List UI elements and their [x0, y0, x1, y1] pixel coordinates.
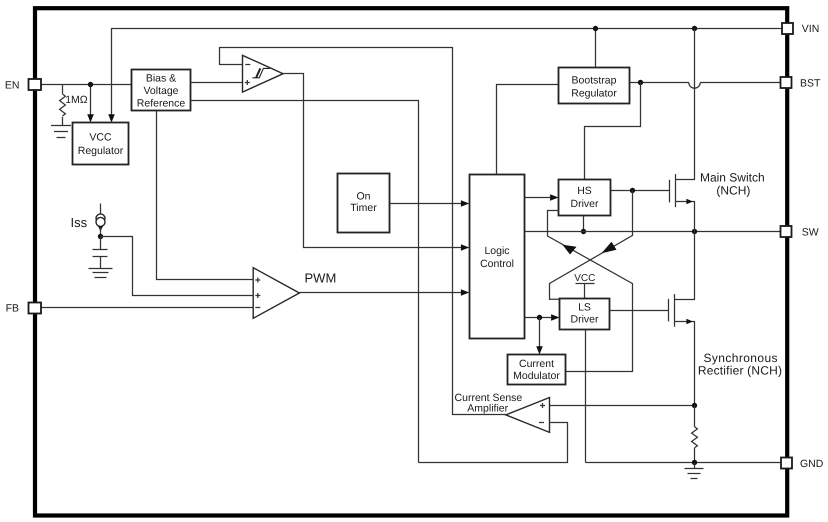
svg-text:Main Switch: Main Switch: [700, 171, 765, 185]
svg-text:Logic: Logic: [484, 245, 509, 257]
svg-text:VCC: VCC: [89, 132, 112, 144]
wire Logic Control to HS Driver: [525, 197, 551, 199]
svg-text:Amplifier: Amplifier: [467, 402, 508, 414]
arrow into HS Driver: [550, 194, 558, 200]
wire LS Driver bottom to GND rail: [585, 330, 587, 463]
wire Bootstrap top to VIN rail: [595, 29, 597, 68]
transistor Q2 Synchronous Rectifier (NCH): [669, 232, 695, 406]
block VCC Regulator: [73, 123, 129, 165]
capacitor C1 (soft start): [93, 237, 108, 269]
wire EN net: [41, 85, 132, 115]
wire Logic Control to LS Driver: [525, 317, 552, 319]
wire VIN rail (top): [112, 29, 783, 115]
svg-text:Voltage: Voltage: [143, 85, 178, 97]
svg-text:Driver: Driver: [571, 313, 600, 325]
svg-text:Bias &: Bias &: [146, 72, 176, 84]
comparator U1 (schmitt enable comparator): [243, 55, 284, 92]
junction VIN/main-switch drain: [692, 26, 697, 31]
pin VIN: [782, 23, 819, 35]
svg-text:Bootstrap: Bootstrap: [572, 74, 617, 86]
resistor R1 1Mohm: [60, 85, 66, 126]
pin SW: [781, 226, 819, 238]
svg-text:Modulator: Modulator: [513, 370, 560, 382]
svg-text:Rectifier (NCH): Rectifier (NCH): [698, 363, 782, 377]
svg-text:On: On: [356, 191, 370, 203]
wire LS Driver output to rectifier gate: [610, 310, 669, 312]
block Current Modulator: [508, 355, 566, 385]
svg-text:BST: BST: [800, 77, 821, 89]
svg-text:Control: Control: [480, 258, 514, 270]
svg-text:SW: SW: [802, 226, 819, 238]
arrow into VCC regulator (from VIN rail): [108, 114, 115, 122]
resistor R2 (current sense): [692, 406, 698, 463]
wire Bias lower output (reference) right then down: [191, 101, 419, 463]
junction BST/HS-driver supply: [638, 80, 643, 85]
pin BST: [781, 77, 822, 89]
wire Iss node to PWM + input 2: [101, 237, 254, 296]
wire - input to reference rail: [419, 423, 568, 463]
wire schmitt - input feedback from current sense amp output: [220, 48, 506, 415]
wire Bias upper output to schmitt + input: [191, 82, 243, 84]
wire BST net (with hop over drain line): [630, 83, 783, 89]
op-amp U3 current sense amplifier: [506, 398, 550, 433]
arrow into Logic Control (On Timer): [461, 200, 469, 206]
pin FB: [6, 303, 41, 315]
wire SW rail: [525, 231, 783, 233]
svg-text:Driver: Driver: [571, 198, 600, 210]
junction LS input node: [537, 315, 542, 320]
junction Iss node: [98, 234, 103, 239]
ground (main, at GND rail): [685, 463, 704, 479]
arrow on cross wire (right): [602, 242, 617, 253]
block Bias & Voltage Reference: [132, 70, 191, 111]
svg-text:Regulator: Regulator: [571, 87, 617, 99]
wire Logic Control top to Bootstrap Regulator left: [497, 85, 559, 175]
junction VIN/bootstrap: [593, 26, 598, 31]
svg-text:1MΩ: 1MΩ: [65, 94, 88, 106]
wire On Timer output to Logic Control: [390, 203, 462, 205]
svg-text:EN: EN: [5, 79, 20, 91]
wire BST node down to HS Driver top: [585, 83, 641, 180]
svg-text:VCC: VCC: [574, 273, 595, 284]
svg-text:VIN: VIN: [802, 23, 820, 35]
wire cross-coupling from HS driver left (diagonal to current modulator): [548, 211, 633, 372]
arrow into VCC regulator (from EN node): [87, 114, 94, 122]
svg-text:GND: GND: [800, 458, 824, 470]
transistor Q1 Main Switch (NCH): [670, 29, 695, 232]
arrow into LS Driver: [551, 314, 559, 320]
block Bootstrap Regulator: [559, 68, 630, 104]
svg-text:LS: LS: [578, 302, 591, 314]
wire PWM output to Logic Control: [299, 292, 461, 294]
svg-text:Current: Current: [519, 358, 554, 370]
wire + input from rectifier source node: [550, 405, 695, 407]
comparator U2 (PWM): [253, 268, 299, 319]
svg-text:Regulator: Regulator: [78, 145, 124, 157]
block HS Driver: [559, 180, 611, 216]
wire LS input node down to Current Modulator: [539, 318, 541, 347]
block LS Driver: [560, 299, 610, 330]
junction SW/main-switch source: [692, 229, 697, 234]
wire cross-coupling from HS output node (diagonal to LS driver): [550, 191, 633, 300]
svg-text:Timer: Timer: [350, 202, 377, 214]
pin EN: [5, 79, 41, 91]
block On Timer: [338, 174, 390, 233]
svg-text:PWM: PWM: [305, 271, 337, 286]
wire GND rail: [586, 462, 783, 464]
junction EN node: [88, 82, 93, 87]
svg-text:(NCH): (NCH): [716, 184, 750, 198]
svg-text:FB: FB: [6, 303, 19, 315]
svg-text:Iss: Iss: [71, 215, 88, 230]
arrow into Logic Control (PWM): [461, 289, 469, 295]
wire HS Driver output to main switch gate: [611, 190, 670, 192]
wire FB to PWM - input: [41, 307, 253, 309]
junction GND node: [692, 460, 697, 465]
current source Iss: [96, 204, 105, 235]
wire schmitt output to Logic Control: [283, 74, 461, 248]
wire Bias bottom output down to PWM + input 1: [157, 111, 254, 280]
svg-text:HS: HS: [577, 185, 592, 197]
ground (below R1): [51, 126, 71, 138]
junction HS/SW: [581, 229, 586, 234]
arrow into Logic Control (schmitt): [461, 244, 469, 250]
arrow on cross wire (left): [563, 245, 577, 255]
junction HS output node: [630, 188, 635, 193]
block Logic Control: [470, 175, 525, 339]
junction rectifier source / sense node: [692, 403, 697, 408]
svg-text:Reference: Reference: [137, 98, 186, 110]
pin GND: [781, 458, 824, 470]
arrow into Current Modulator: [536, 346, 543, 354]
ground (below C1): [89, 269, 113, 278]
VCC supply symbol (for LS Driver): [574, 273, 595, 299]
wire HS Driver bottom to SW rail: [583, 216, 585, 232]
